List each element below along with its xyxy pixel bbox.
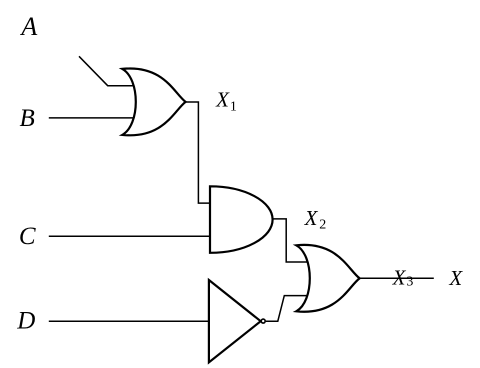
node label X1 — [215, 88, 237, 115]
svg-text:X: X — [392, 266, 407, 290]
wire X3 output — [359, 277, 434, 279]
wire inverter output to OR2 bottom input (jog) — [266, 296, 308, 322]
wire B — [49, 117, 134, 119]
inverter bubble — [261, 319, 265, 323]
svg-text:X: X — [215, 88, 230, 112]
or-gate U1 (output X1) — [122, 68, 185, 135]
wire X2 output (AND to OR2 top input) — [272, 219, 308, 262]
or-gate U4 (output X3) — [296, 245, 359, 312]
node label X2 — [304, 206, 327, 233]
svg-text:X: X — [304, 206, 319, 230]
inverter U3 (triangle) — [209, 280, 261, 362]
node label X3 — [392, 266, 414, 290]
wire D — [49, 320, 209, 322]
and-gate U2 (output X2) — [210, 186, 273, 253]
svg-text:3: 3 — [406, 275, 413, 290]
svg-text:A: A — [19, 12, 37, 41]
svg-text:C: C — [19, 223, 36, 250]
svg-text:1: 1 — [230, 100, 237, 115]
wire A (diagonal into OR1 top input) — [79, 56, 134, 85]
wire C — [49, 235, 210, 237]
svg-text:B: B — [20, 105, 35, 132]
svg-text:D: D — [16, 308, 35, 335]
svg-text:X: X — [448, 266, 463, 290]
svg-text:2: 2 — [319, 218, 326, 233]
wire X1 output (OR1 to AND top input) — [185, 102, 210, 203]
